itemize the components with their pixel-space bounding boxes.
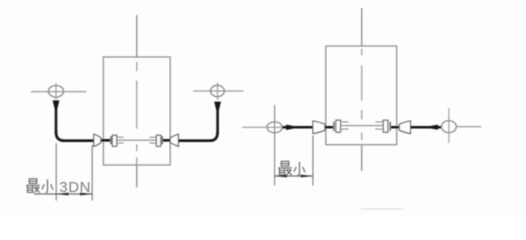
- left instrument tap: vertical axis tick: [55, 83, 57, 100]
- left reducer (trapezoid nozzle): [313, 121, 325, 134]
- left flow arrow (points right): [286, 125, 301, 130]
- left impulse pipe: elbow curve: [56, 132, 64, 141]
- right impulse pipe: elbow curve: [210, 132, 218, 141]
- left reducer (trapezoid nozzle): [94, 134, 101, 146]
- left instrument tap: horizontal axis line: [31, 91, 87, 93]
- dimension line: [34, 193, 92, 195]
- label 小 (drawn strokes): [294, 162, 305, 175]
- dimension: right extension line: [91, 145, 93, 201]
- left instrument tap: vertical axis line (doubles as extension line): [274, 105, 276, 186]
- left gasket bar: [110, 136, 112, 144]
- vessel body (rectangle): [326, 46, 397, 145]
- left weld taper lines (top/bottom short): [117, 136, 124, 138]
- left instrument tap: circle symbol: [48, 86, 63, 98]
- inner capillary tube (long middle line): [117, 139, 157, 141]
- left weld taper lines (top/bottom short): [341, 121, 349, 123]
- right impulse pipe: horizontal run: [178, 139, 212, 142]
- left instrument tap: horizontal axis line: [242, 126, 283, 128]
- left stub pipe (thick): [325, 126, 333, 129]
- left flange: [112, 135, 116, 146]
- right instrument tap: vertical axis line: [448, 108, 450, 143]
- right impulse line (thick): [411, 126, 442, 129]
- inner capillary tube (long middle line): [341, 125, 384, 127]
- dimension arrow left (points left): [56, 193, 68, 196]
- left impulse line (thick): [283, 126, 314, 129]
- faint cropped caption remnant: [361, 208, 403, 210]
- label 最 (drawn strokes): [26, 179, 40, 193]
- right gasket bar: [161, 136, 163, 144]
- right instrument tap: horizontal axis line: [456, 126, 481, 128]
- vessel body (rectangle): [103, 57, 170, 165]
- right reducer (trapezoid nozzle): [170, 134, 178, 146]
- right instrument tap: vertical axis tick: [217, 83, 219, 101]
- dimension arrow left (points left): [275, 175, 287, 178]
- vessel centerline dash below pipe: [361, 132, 363, 140]
- left flow arrow (points down): [53, 100, 60, 114]
- right gasket bar: [389, 122, 391, 131]
- dimension line: [275, 175, 313, 177]
- label 最 (drawn strokes): [278, 161, 292, 175]
- dimension arrow right (points right): [301, 175, 313, 178]
- dimension arrow right (points right): [80, 193, 92, 196]
- left gasket bar: [333, 122, 335, 131]
- vessel centerline dash below pipe 2: [136, 157, 138, 164]
- vessel centerline short dash 2: [361, 110, 363, 119]
- right weld taper lines (top/bottom short): [150, 136, 157, 138]
- right instrument tap: circle symbol: [211, 85, 225, 96]
- right flow arrow (points left): [424, 125, 439, 130]
- right weld taper lines (top/bottom short): [375, 121, 383, 123]
- right reducer (trapezoid nozzle): [399, 121, 410, 134]
- vessel centerline short dash: [136, 62, 138, 71]
- vessel centerline (lower solid): [361, 145, 363, 171]
- left instrument tap: circle symbol: [267, 122, 282, 133]
- label 小 (drawn strokes): [42, 179, 53, 192]
- left stub pipe (thick): [101, 139, 110, 142]
- right flow arrow (points down): [214, 102, 221, 116]
- right stub pipe (thick): [391, 126, 400, 129]
- vessel centerline (upper solid): [361, 8, 363, 46]
- right impulse pipe: riser: [216, 110, 219, 134]
- vessel centerline short dash: [361, 49, 363, 56]
- dimension: left extension line: [55, 143, 57, 201]
- vessel centerline (lower solid): [136, 165, 138, 188]
- vessel centerline (upper solid): [136, 15, 138, 57]
- vessel centerline long dash: [136, 81, 138, 129]
- svg-text:3DN: 3DN: [59, 179, 91, 196]
- right stub pipe (thick): [163, 139, 171, 142]
- left flange: [336, 120, 341, 132]
- left impulse pipe: riser: [55, 110, 58, 134]
- right flange: [156, 135, 160, 146]
- vessel centerline dash below pipe: [136, 144, 138, 151]
- right instrument tap: circle symbol: [442, 121, 457, 133]
- dimension: right extension line: [312, 136, 314, 186]
- left impulse pipe: horizontal run: [62, 139, 95, 142]
- vessel centerline long dash: [361, 65, 363, 100]
- right flange: [383, 120, 388, 132]
- right instrument tap: horizontal axis line: [193, 90, 244, 92]
